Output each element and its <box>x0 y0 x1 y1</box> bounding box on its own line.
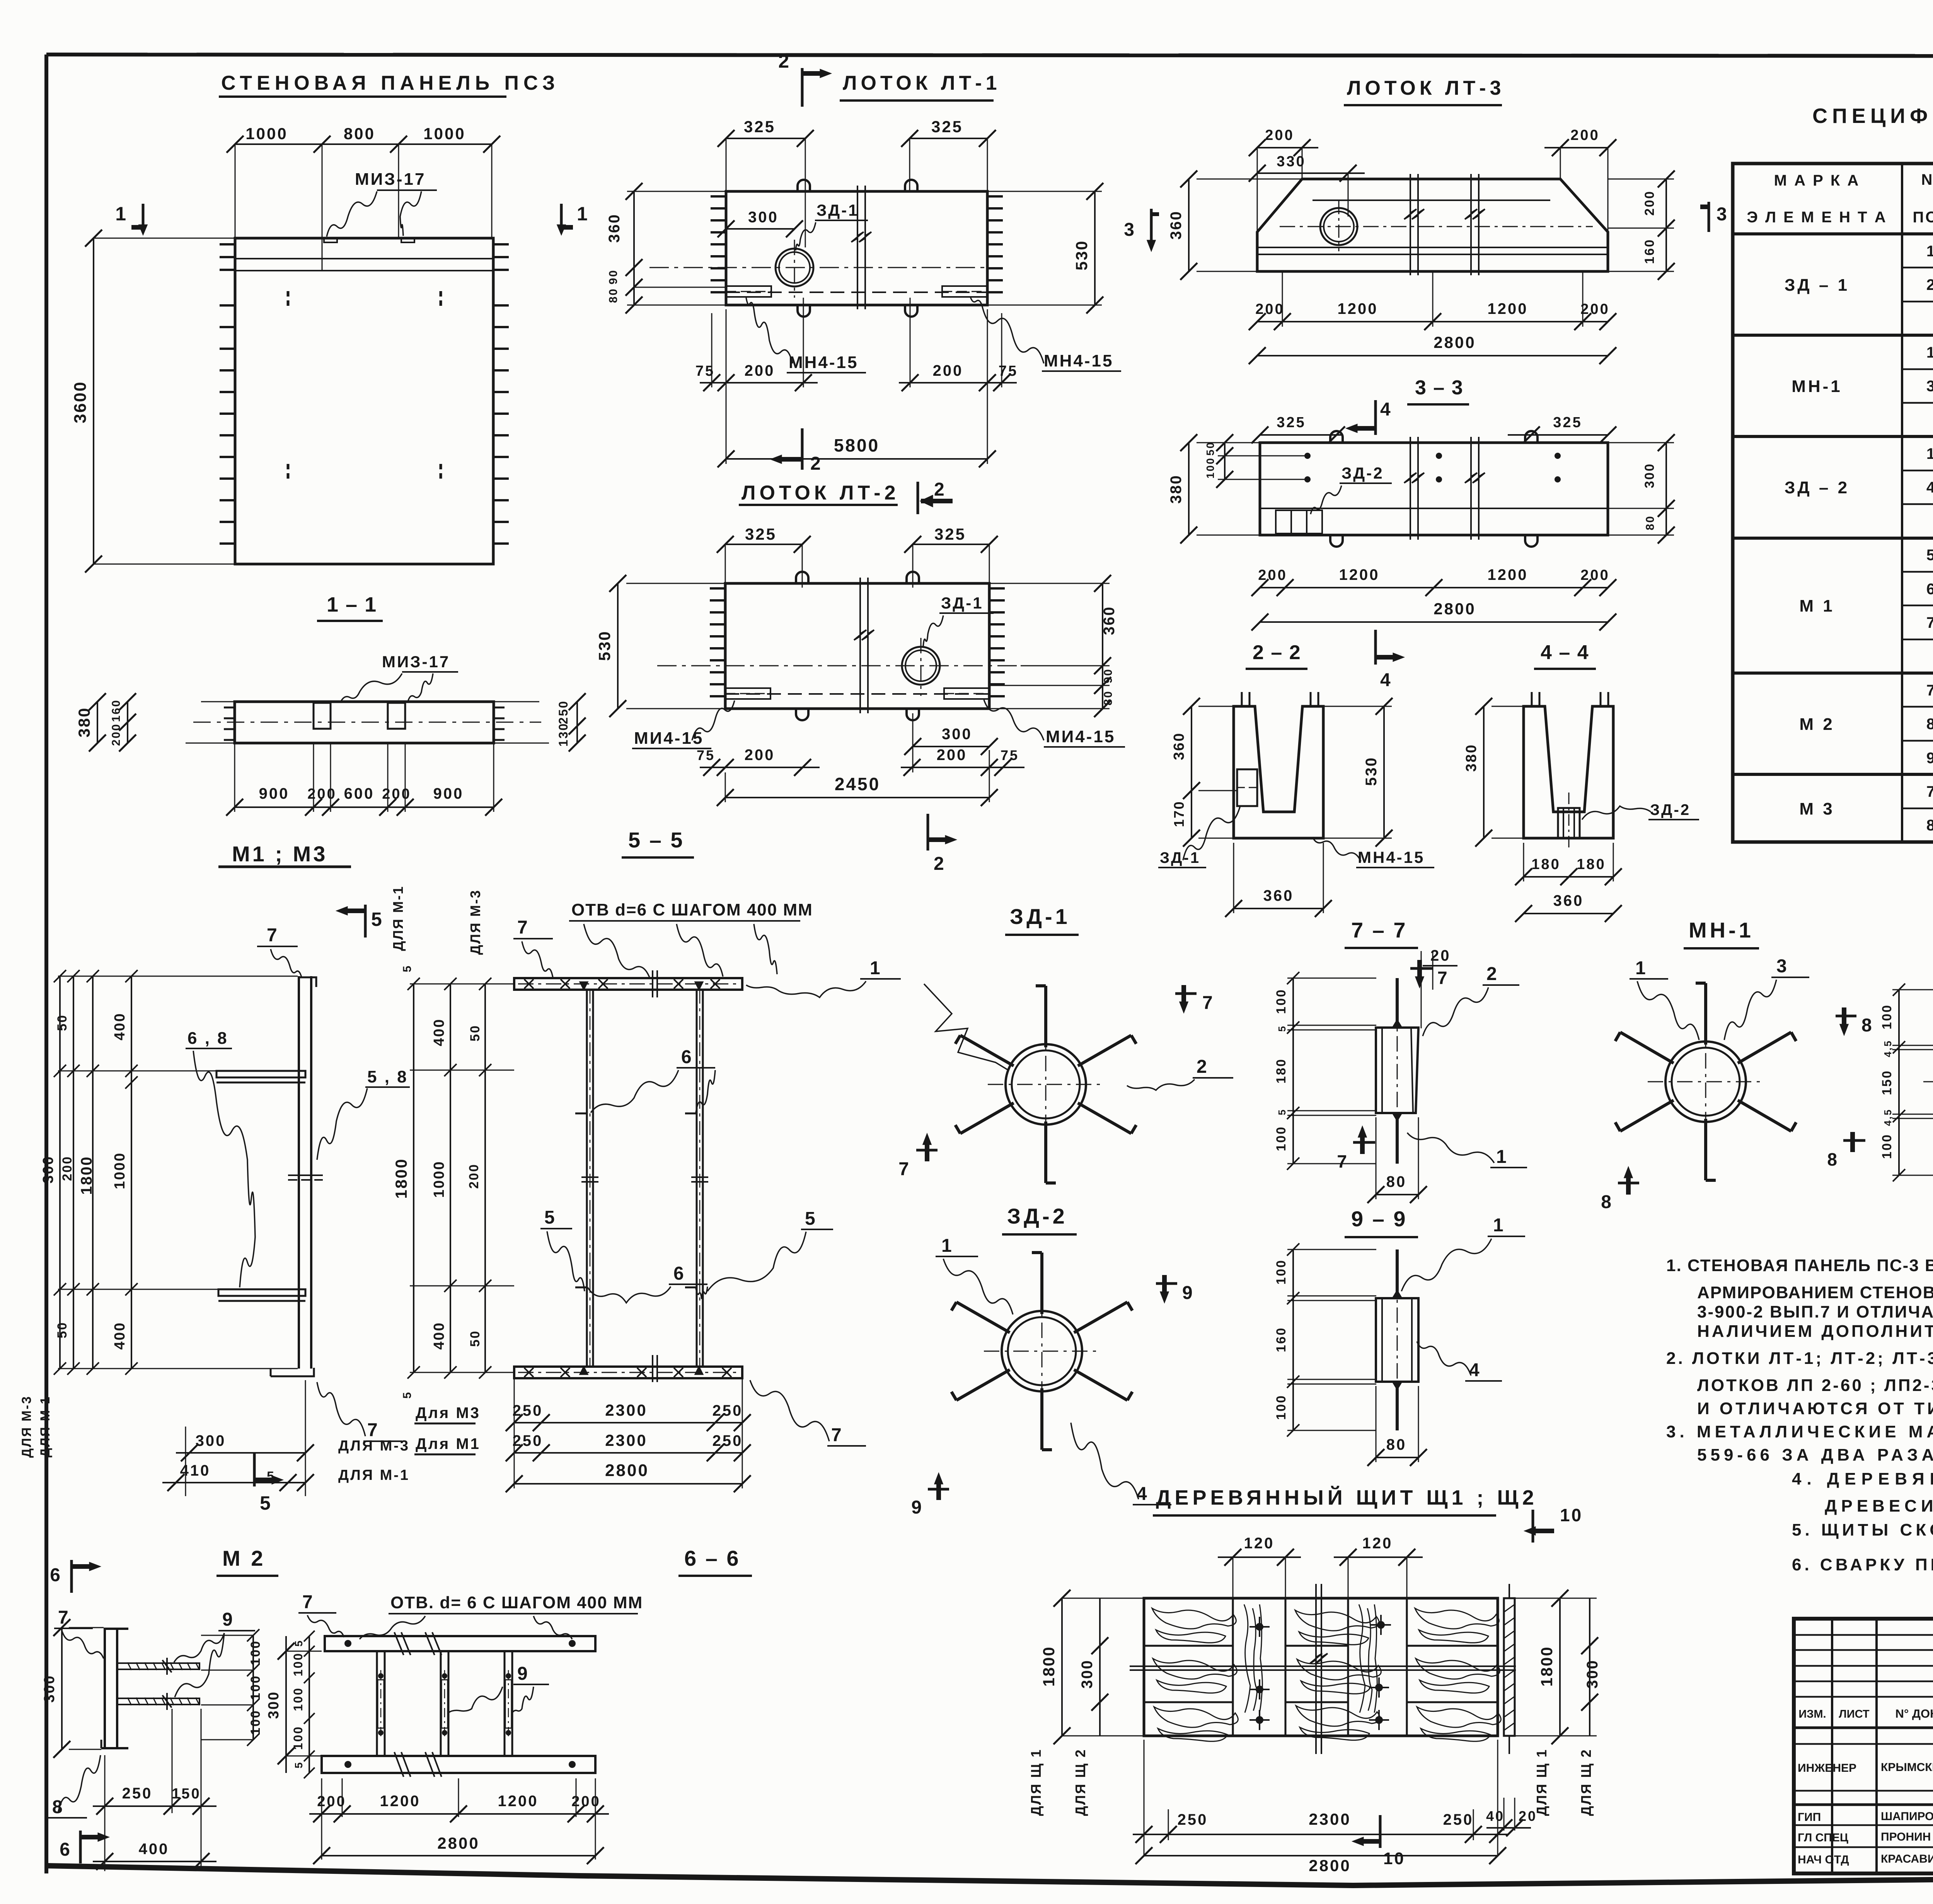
svg-text:75: 75 <box>695 363 715 379</box>
title block left rows <box>1794 1634 1933 1636</box>
LT-2 body <box>725 583 989 709</box>
svg-text:150: 150 <box>1880 1070 1894 1095</box>
LT-2 325 dims <box>725 544 802 545</box>
M2 rods <box>117 1663 199 1669</box>
svg-text:ОТВ d=6 С ШАГОМ 400 ММ: ОТВ d=6 С ШАГОМ 400 ММ <box>571 900 813 919</box>
svg-text:5. ЩИТЫ СКОЛАЧИВАЮТСЯ ПО МЕСТУ: 5. ЩИТЫ СКОЛАЧИВАЮТСЯ ПО МЕСТУ ГВОЗДЯМИ … <box>1792 1520 1933 1539</box>
svg-text:1200: 1200 <box>498 1793 539 1810</box>
PS3 edge hatch marks <box>220 243 235 245</box>
svg-text:ЗД-1: ЗД-1 <box>816 201 859 219</box>
svg-text:7 – 7: 7 – 7 <box>1351 918 1407 942</box>
shield central break line <box>1310 1584 1322 1754</box>
svg-text:250: 250 <box>513 1432 543 1449</box>
svg-text:М1 ; М3: М1 ; М3 <box>232 842 327 866</box>
PS3 panel outline <box>235 238 493 564</box>
LT-1 325 dims <box>726 138 805 139</box>
svg-text:360: 360 <box>606 213 623 243</box>
svg-text:200: 200 <box>317 1793 346 1810</box>
svg-text:5: 5 <box>1276 1025 1288 1031</box>
svg-text:ДЛЯ Щ 1: ДЛЯ Щ 1 <box>1534 1749 1549 1816</box>
svg-text:МН4-15: МН4-15 <box>1044 351 1114 370</box>
svg-text:100: 100 <box>1880 1004 1894 1030</box>
svg-text:3: 3 <box>1776 956 1788 977</box>
3-3 right dims 300 80 <box>1608 442 1674 443</box>
LT-1 hidden bottom lines and corner plates <box>726 291 987 293</box>
7-7 sleeve section <box>1376 1028 1418 1113</box>
svg-text:90: 90 <box>607 269 620 284</box>
shield bottom dims 250 2300 250 2800 <box>1144 1740 1145 1856</box>
svg-text:120: 120 <box>1362 1535 1393 1552</box>
9-9 bottom dim 80 <box>1376 1457 1418 1458</box>
svg-text:ЛОТОК ЛТ-3: ЛОТОК ЛТ-3 <box>1347 77 1505 99</box>
shield right side view <box>1504 1598 1515 1736</box>
svg-text:8: 8 <box>1827 1149 1839 1169</box>
LT-2 dim 300 <box>913 746 989 747</box>
ZD-1 embedded pipe detail <box>1006 1044 1086 1125</box>
svg-text:250: 250 <box>122 1785 153 1802</box>
svg-text:И ОТЛИЧАЮТСЯ ОТ ТИПОВЫХ ТОЛЬКО: И ОТЛИЧАЮТСЯ ОТ ТИПОВЫХ ТОЛЬКО ОПАЛУБОЧН… <box>1697 1399 1933 1418</box>
section mark 9 bottom left <box>928 1488 949 1491</box>
svg-text:ЛИСТ: ЛИСТ <box>1839 1708 1869 1720</box>
1-1 left dims 380 200 160 <box>97 702 98 743</box>
shield bolts <box>1249 1626 1270 1628</box>
svg-text:1200: 1200 <box>1488 300 1528 317</box>
svg-text:4,5: 4,5 <box>1882 1040 1894 1057</box>
svg-text:ЗД-1: ЗД-1 <box>1160 849 1200 866</box>
svg-text:ПРОНИН: ПРОНИН <box>1881 1831 1931 1843</box>
svg-text:6. СВАРКУ ПРОИЗВОДИТЬ ЭЛЕКТРОД: 6. СВАРКУ ПРОИЗВОДИТЬ ЭЛЕКТРОДАМИ Э-42 ,… <box>1792 1555 1933 1574</box>
svg-text:300: 300 <box>748 209 779 226</box>
svg-text:410: 410 <box>180 1462 211 1479</box>
svg-text:380: 380 <box>1463 744 1480 772</box>
svg-text:6: 6 <box>1926 581 1933 598</box>
svg-text:2. ЛОТКИ ЛТ-1; ЛТ-2; ЛТ-3 ИЗГО: 2. ЛОТКИ ЛТ-1; ЛТ-2; ЛТ-3 ИЗГОТОВЛЯЮТСЯ … <box>1666 1349 1933 1368</box>
section mark 7 flag top <box>1407 974 1430 975</box>
svg-text:1800: 1800 <box>392 1158 410 1198</box>
svg-text:N° ДОКУМ.: N° ДОКУМ. <box>1895 1707 1933 1720</box>
svg-text:325: 325 <box>1553 414 1582 431</box>
svg-text:5: 5 <box>401 965 414 972</box>
LT-3 left dim 360 <box>1188 179 1190 271</box>
svg-text:80: 80 <box>1644 515 1657 530</box>
svg-text:6: 6 <box>50 1565 62 1585</box>
2-2 U section <box>1234 706 1323 838</box>
M2 bottom dims 250 150 400 <box>104 1755 106 1871</box>
section mark 1 right <box>560 204 563 232</box>
svg-text:6 – 6: 6 – 6 <box>684 1546 740 1570</box>
svg-text:100: 100 <box>248 1710 263 1735</box>
svg-text:2: 2 <box>1197 1057 1209 1077</box>
svg-text:СТЕНОВАЯ ПАНЕЛЬ ПСЗ: СТЕНОВАЯ ПАНЕЛЬ ПСЗ <box>221 72 559 94</box>
svg-text:200: 200 <box>307 786 336 802</box>
LT-1 5800 dim <box>726 458 987 460</box>
svg-text:5: 5 <box>544 1207 556 1228</box>
section mark 1 left <box>142 204 145 232</box>
svg-text:3: 3 <box>1124 220 1136 240</box>
6-6 dims <box>285 1636 287 1773</box>
svg-text:10: 10 <box>1560 1505 1583 1525</box>
drawing frame border <box>46 55 1933 56</box>
svg-text:2: 2 <box>810 453 822 474</box>
ZD-2 sleeve in 3-3 <box>1276 510 1322 534</box>
svg-text:1: 1 <box>1493 1215 1505 1236</box>
5-5 top plate <box>514 978 742 990</box>
svg-text:7: 7 <box>1926 783 1933 800</box>
svg-text:4 – 4: 4 – 4 <box>1541 641 1589 664</box>
svg-text:ГЛ СПЕЦ: ГЛ СПЕЦ <box>1798 1831 1848 1844</box>
svg-text:400: 400 <box>112 1322 128 1350</box>
ZD-2 sleeve in 4-4 slab <box>1558 808 1580 838</box>
svg-text:100: 100 <box>291 1687 305 1711</box>
4-4 U section <box>1524 706 1613 838</box>
svg-text:180: 180 <box>1531 856 1560 873</box>
svg-text:50: 50 <box>55 1014 70 1031</box>
9-9 left dims <box>1287 1249 1376 1250</box>
title block outer <box>1794 1619 1933 1873</box>
svg-text:2800: 2800 <box>1309 1856 1351 1875</box>
5-5 bottom dim rows <box>514 1378 515 1488</box>
svg-text:НАЧ ОТД: НАЧ ОТД <box>1798 1853 1849 1866</box>
section mark 4 top <box>1374 400 1377 435</box>
svg-text:180: 180 <box>1274 1058 1289 1084</box>
svg-text:360: 360 <box>1101 606 1118 635</box>
LT-2 hole ZD-1 <box>902 647 940 685</box>
svg-text:200: 200 <box>467 1163 481 1189</box>
LT-3 right dims 200 160 and section 3 <box>1608 179 1674 180</box>
svg-text:4: 4 <box>1137 1484 1149 1504</box>
section mark 7 top right <box>1173 992 1200 1013</box>
LT-1 right dim 530 <box>1094 191 1096 305</box>
svg-text:1: 1 <box>1926 243 1933 260</box>
svg-text:300: 300 <box>942 726 972 743</box>
svg-text:ДЛЯ М-3: ДЛЯ М-3 <box>19 1395 34 1458</box>
section mark 9 top right <box>1156 1282 1177 1285</box>
svg-text:9 – 9: 9 – 9 <box>1351 1207 1407 1231</box>
svg-text:5: 5 <box>260 1492 272 1514</box>
svg-text:2: 2 <box>1486 964 1498 984</box>
svg-text:7: 7 <box>58 1607 70 1628</box>
svg-text:ДЛЯ М-3: ДЛЯ М-3 <box>338 1438 410 1454</box>
svg-text:5: 5 <box>805 1209 817 1229</box>
6-6 top plate <box>325 1636 595 1651</box>
svg-text:2: 2 <box>778 50 791 72</box>
section mark 2 bottom of LT-2 <box>927 814 929 851</box>
svg-text:1 – 1: 1 – 1 <box>327 593 377 616</box>
svg-text:9: 9 <box>911 1497 923 1518</box>
svg-text:400: 400 <box>112 1013 128 1040</box>
6-6 bottom plate <box>322 1756 595 1773</box>
svg-text:1: 1 <box>941 1236 953 1256</box>
section mark 8 right <box>1833 1013 1856 1030</box>
LT-1 edge hatches <box>711 195 726 198</box>
7-7 rebar above below <box>1396 978 1399 1028</box>
svg-text:380: 380 <box>75 707 93 737</box>
svg-text:90: 90 <box>1102 668 1115 683</box>
svg-text:900: 900 <box>259 785 290 802</box>
LT-2 right dims 360 90 80 <box>989 583 1110 584</box>
svg-text:МН-1: МН-1 <box>1689 918 1754 942</box>
svg-text:100: 100 <box>1274 1126 1289 1151</box>
svg-text:4: 4 <box>1469 1360 1481 1381</box>
section mark 2 top of LT-1 <box>801 68 804 107</box>
svg-text:ЗД-1: ЗД-1 <box>1010 904 1070 929</box>
svg-text:5: 5 <box>1926 547 1933 564</box>
svg-text:2 – 2: 2 – 2 <box>1253 641 1301 664</box>
ZD-1 sleeve in 2-2 wall <box>1237 769 1257 806</box>
svg-text:ГИП: ГИП <box>1798 1811 1821 1824</box>
svg-text:80: 80 <box>1386 1173 1407 1190</box>
svg-text:ДЛЯ Щ 2: ДЛЯ Щ 2 <box>1578 1749 1594 1816</box>
svg-text:2800: 2800 <box>605 1461 649 1480</box>
svg-text:2800: 2800 <box>1434 333 1476 351</box>
svg-text:2: 2 <box>1926 276 1933 293</box>
svg-text:200: 200 <box>1580 301 1609 317</box>
LT-2 hidden lines corner plates <box>725 693 989 695</box>
svg-text:ЛОТКОВ ЛП 2-60 ; ЛП2-30 И ЛП1-: ЛОТКОВ ЛП 2-60 ; ЛП2-30 И ЛП1-30 СООТВЕТ… <box>1697 1376 1933 1395</box>
svg-text:9: 9 <box>1926 750 1933 767</box>
svg-text:2300: 2300 <box>605 1431 647 1449</box>
shield central rod <box>1130 1665 1516 1667</box>
svg-text:75: 75 <box>697 747 715 763</box>
svg-text:360: 360 <box>1553 892 1584 909</box>
svg-text:200: 200 <box>60 1156 75 1181</box>
M2 profile <box>104 1628 106 1749</box>
svg-text:100: 100 <box>1274 989 1289 1014</box>
svg-text:200: 200 <box>382 786 411 802</box>
svg-text:ЛОТОК ЛТ-1: ЛОТОК ЛТ-1 <box>843 72 1001 94</box>
svg-text:160: 160 <box>110 699 123 722</box>
svg-text:1200: 1200 <box>1338 300 1378 317</box>
svg-text:100: 100 <box>248 1675 263 1700</box>
section mark 8 bottom left <box>1618 1182 1639 1185</box>
svg-text:7: 7 <box>517 917 529 938</box>
svg-text:160: 160 <box>1642 239 1657 264</box>
svg-text:КРЫМСКИЙ: КРЫМСКИЙ <box>1881 1761 1933 1774</box>
svg-text:170: 170 <box>1171 800 1187 827</box>
svg-text:150: 150 <box>172 1786 201 1802</box>
5-5 columns <box>586 990 588 1367</box>
svg-text:325: 325 <box>1277 414 1306 431</box>
ZD-2 embedded pipe detail <box>1002 1311 1082 1391</box>
svg-text:325: 325 <box>931 118 963 136</box>
svg-text:7: 7 <box>1437 968 1449 988</box>
svg-text:ДЛЯ М-1: ДЛЯ М-1 <box>390 885 406 951</box>
svg-text:3600: 3600 <box>71 381 90 423</box>
leader cloud 1 to ZD-1 <box>924 984 1008 1070</box>
svg-text:7: 7 <box>1337 1151 1348 1171</box>
svg-text:3-900-2 ВЫП.7 И ОТЛИЧАЕТСЯ ОТ: 3-900-2 ВЫП.7 И ОТЛИЧАЕТСЯ ОТ ПОСЛЕДНЕЙ … <box>1697 1302 1933 1321</box>
LT-2 left dim 530 <box>617 583 619 709</box>
svg-text:ИЗМ.: ИЗМ. <box>1798 1708 1826 1720</box>
LT-3 bottom dims <box>1257 321 1608 322</box>
svg-text:5: 5 <box>371 909 384 930</box>
svg-text:5: 5 <box>401 1391 414 1399</box>
section mark 7 flag bottom <box>1353 1141 1375 1144</box>
svg-text:9: 9 <box>222 1609 234 1630</box>
svg-text:400: 400 <box>431 1018 447 1046</box>
svg-text:250: 250 <box>713 1402 743 1419</box>
3-3 small dims 50 100 <box>1218 442 1260 443</box>
svg-text:1800: 1800 <box>78 1156 95 1195</box>
svg-text:20: 20 <box>1430 947 1451 964</box>
svg-text:200: 200 <box>933 362 963 379</box>
svg-text:9: 9 <box>517 1664 529 1684</box>
svg-text:300: 300 <box>40 1156 56 1183</box>
svg-text:7: 7 <box>267 925 279 946</box>
svg-text:300: 300 <box>1079 1659 1096 1689</box>
svg-text:Для М1: Для М1 <box>416 1435 481 1452</box>
section mark 8 flag at 8-8 <box>1843 1139 1865 1142</box>
svg-text:200: 200 <box>1642 190 1657 216</box>
svg-text:4. ДЕРЕВЯННЫЕ ЩИТЫ ВЫПОЛНЯТЬ И: 4. ДЕРЕВЯННЫЕ ЩИТЫ ВЫПОЛНЯТЬ ИЗ АНТИСЕПТ… <box>1792 1469 1933 1488</box>
svg-text:530: 530 <box>1363 757 1380 786</box>
section mark 7 bottom left <box>916 1149 938 1152</box>
svg-text:8: 8 <box>1861 1015 1873 1036</box>
svg-text:180: 180 <box>1577 856 1606 873</box>
svg-text:1000: 1000 <box>245 124 288 143</box>
svg-text:9: 9 <box>1182 1283 1194 1303</box>
svg-text:ДРЕВЕСИНЫ ХВОЙНЫХ ПОРОД.: ДРЕВЕСИНЫ ХВОЙНЫХ ПОРОД. <box>1825 1496 1933 1515</box>
LT-2 2450 dim <box>725 797 989 798</box>
svg-text:Э Л Е М Е Н Т А: Э Л Е М Е Н Т А <box>1747 209 1887 226</box>
svg-text:8: 8 <box>1926 716 1933 733</box>
svg-text:5 – 5: 5 – 5 <box>628 828 684 852</box>
svg-text:1800: 1800 <box>1040 1646 1058 1686</box>
svg-text:ЗД-2: ЗД-2 <box>1650 801 1691 818</box>
svg-text:100: 100 <box>1274 1259 1289 1285</box>
svg-text:200: 200 <box>1580 567 1609 583</box>
svg-text:8: 8 <box>1926 817 1933 834</box>
svg-text:80: 80 <box>1386 1436 1407 1453</box>
svg-text:НАЛИЧИЕМ ДОПОЛНИТЕЛЬНЫХ ЗАКЛАД: НАЛИЧИЕМ ДОПОЛНИТЕЛЬНЫХ ЗАКЛАДНЫХ ДЕТАЛЕ… <box>1697 1321 1933 1341</box>
svg-text:1200: 1200 <box>1488 566 1528 583</box>
section mark 5 bottom <box>253 1454 256 1486</box>
svg-text:325: 325 <box>744 118 776 136</box>
svg-text:N°: N° <box>1921 171 1933 188</box>
section mark 4 bottom <box>1374 630 1377 665</box>
PS3 left vertical dimension 3600 <box>93 238 94 564</box>
svg-text:325: 325 <box>934 525 966 543</box>
svg-text:75: 75 <box>999 363 1018 379</box>
LT-2 edge hatches <box>710 587 725 590</box>
svg-text:Для М3: Для М3 <box>416 1405 481 1422</box>
1-1 slab section <box>235 702 494 743</box>
svg-text:100: 100 <box>248 1640 263 1665</box>
svg-text:ДЕРЕВЯННЫЙ ЩИТ Щ1 ; Щ2: ДЕРЕВЯННЫЙ ЩИТ Щ1 ; Щ2 <box>1156 1486 1538 1509</box>
svg-text:6: 6 <box>673 1263 685 1284</box>
M1M3 shelf plates <box>216 1071 305 1077</box>
svg-text:100: 100 <box>291 1726 305 1750</box>
svg-text:100: 100 <box>1274 1394 1289 1420</box>
svg-text:ДЛЯ М 1: ДЛЯ М 1 <box>38 1396 53 1457</box>
svg-text:4: 4 <box>1926 479 1933 496</box>
4-4 bottom dims 180 180 360 <box>1524 876 1613 878</box>
MN-1 embedded pipe detail <box>1665 1041 1746 1122</box>
LT-1 left dims 360 90 80 <box>627 191 726 192</box>
section mark 3 right of LT-1 <box>1150 209 1153 244</box>
svg-text:7: 7 <box>302 1592 314 1613</box>
1-1 right dims 250 130 <box>576 702 578 743</box>
svg-text:4: 4 <box>1380 670 1392 690</box>
5-5 left dim columns <box>410 984 514 985</box>
svg-text:1000: 1000 <box>112 1152 128 1190</box>
svg-text:360: 360 <box>1171 732 1187 760</box>
svg-text:100: 100 <box>1880 1134 1894 1159</box>
svg-text:4: 4 <box>1380 399 1392 420</box>
svg-text:250: 250 <box>1178 1811 1208 1828</box>
LT-1 hole ZD-1 <box>776 249 813 286</box>
svg-text:250: 250 <box>713 1432 743 1449</box>
svg-text:50: 50 <box>468 1330 482 1347</box>
section mark 2 near LT-2 title <box>917 482 919 514</box>
svg-text:200: 200 <box>1255 301 1284 317</box>
svg-text:3 – 3: 3 – 3 <box>1415 377 1464 399</box>
svg-text:559-66 ЗА ДВА РАЗА.: 559-66 ЗА ДВА РАЗА. <box>1697 1445 1933 1464</box>
3-3 body <box>1260 443 1608 535</box>
svg-text:8: 8 <box>1601 1192 1613 1212</box>
svg-text:АРМИРОВАНИЕМ СТЕНОВОЙ ПАНЕЛИ П: АРМИРОВАНИЕМ СТЕНОВОЙ ПАНЕЛИ ПБУ1-3б-1 П… <box>1697 1282 1933 1302</box>
svg-text:5800: 5800 <box>834 435 880 455</box>
3-3 bottom dims <box>1260 587 1608 588</box>
svg-text:300: 300 <box>196 1432 226 1449</box>
2-2 dims <box>1191 706 1192 838</box>
svg-text:ЗД – 2: ЗД – 2 <box>1785 478 1849 497</box>
svg-text:ДЛЯ М-3: ДЛЯ М-3 <box>467 889 483 955</box>
svg-text:КРАСАВИН: КРАСАВИН <box>1881 1853 1933 1865</box>
PS3 embed marks inside panel <box>287 291 290 297</box>
shield panel <box>1144 1598 1498 1736</box>
svg-text:6 , 8: 6 , 8 <box>188 1029 228 1048</box>
svg-text:2450: 2450 <box>835 774 880 794</box>
svg-text:400: 400 <box>139 1841 169 1858</box>
svg-text:2800: 2800 <box>1434 600 1476 618</box>
svg-text:1: 1 <box>1926 445 1933 462</box>
LT-1 body <box>726 191 987 305</box>
svg-text:2300: 2300 <box>605 1401 647 1419</box>
3-3 left dim 380 <box>1188 443 1190 535</box>
svg-text:900: 900 <box>433 785 464 802</box>
svg-text:3. МЕТАЛЛИЧЕСКИЕ МАРКИ М-1÷М-3: 3. МЕТАЛЛИЧЕСКИЕ МАРКИ М-1÷М-3 ПОКРЫТЬ Э… <box>1666 1422 1933 1441</box>
PS3 top dimension 1000-800-1000 <box>235 143 492 145</box>
svg-text:200: 200 <box>745 362 775 379</box>
svg-text:5: 5 <box>293 1640 305 1647</box>
svg-text:330: 330 <box>1277 153 1306 170</box>
svg-text:ЛОТОК ЛТ-2: ЛОТОК ЛТ-2 <box>741 482 900 504</box>
svg-text:ИНЖЕНЕР: ИНЖЕНЕР <box>1798 1762 1856 1774</box>
9-9 rebar <box>1396 1249 1399 1298</box>
svg-text:ЗД-1: ЗД-1 <box>941 594 984 612</box>
svg-text:5 , 8: 5 , 8 <box>367 1067 408 1086</box>
5-5 bottom plate <box>514 1367 742 1378</box>
svg-text:530: 530 <box>1072 240 1091 270</box>
svg-text:5: 5 <box>293 1761 305 1769</box>
svg-text:ДЛЯ Щ 1: ДЛЯ Щ 1 <box>1028 1749 1044 1816</box>
svg-text:200: 200 <box>745 747 775 764</box>
spec table outer border <box>1733 164 1933 842</box>
svg-text:300: 300 <box>41 1675 58 1703</box>
svg-text:3: 3 <box>1926 378 1933 395</box>
3-3 dims 325 <box>1260 434 1342 436</box>
4-4 dims <box>1483 706 1485 838</box>
LT-3 body trapezoid <box>1257 179 1608 271</box>
svg-text:1200: 1200 <box>1339 566 1380 583</box>
7-7 bottom dim 80 <box>1376 1194 1418 1195</box>
LT-2 dims 75 200 bottom <box>700 767 820 768</box>
svg-text:М 3: М 3 <box>1799 799 1834 818</box>
svg-text:100: 100 <box>1204 457 1216 479</box>
section mark 6 top <box>70 1560 73 1593</box>
spec table row lines <box>1902 267 1933 269</box>
